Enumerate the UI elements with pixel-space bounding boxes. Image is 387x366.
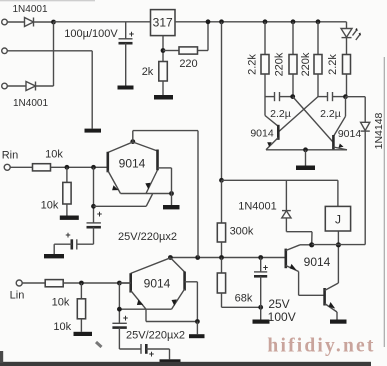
svg-text:Lin: Lin [10,290,25,302]
svg-text:1N4001: 1N4001 [12,4,47,15]
svg-text:2.2k: 2.2k [327,54,339,75]
svg-text:100V: 100V [268,310,296,324]
svg-text:220k: 220k [300,52,312,76]
svg-text:68k: 68k [235,293,253,305]
svg-text:9014: 9014 [119,156,146,170]
svg-text:10k: 10k [41,200,59,212]
svg-text:10k: 10k [52,297,70,309]
svg-text:+: + [123,313,128,323]
svg-text:300k: 300k [230,226,254,238]
svg-text:100µ/100V: 100µ/100V [64,28,118,40]
svg-text:Rin: Rin [2,150,19,162]
svg-text:9014: 9014 [338,128,362,140]
svg-text:+: + [149,349,154,359]
svg-text:+: + [263,263,268,273]
svg-text:220k: 220k [274,52,286,76]
svg-text:9014: 9014 [250,128,274,140]
svg-text:220: 220 [179,58,197,70]
svg-text:+: + [97,209,102,219]
svg-text:25V: 25V [268,297,289,311]
svg-text:25V/220µx2: 25V/220µx2 [118,231,177,243]
svg-text:+: + [129,29,134,39]
svg-text:10k: 10k [45,149,63,161]
svg-text:1N4148: 1N4148 [373,112,385,149]
svg-text:1N4001: 1N4001 [13,98,48,109]
svg-text:2.2µ: 2.2µ [270,108,291,120]
svg-text:9014: 9014 [144,276,171,290]
svg-text:2.2k: 2.2k [247,54,259,75]
svg-text:2.2µ: 2.2µ [320,108,341,120]
svg-text:J: J [335,213,341,227]
svg-text:hifidiy.net: hifidiy.net [267,336,375,357]
svg-text:317: 317 [153,16,173,30]
svg-text:2k: 2k [142,66,154,78]
svg-text:10k: 10k [53,321,71,333]
svg-text:25V/220µx2: 25V/220µx2 [126,329,185,341]
svg-text:1N4001: 1N4001 [238,201,277,213]
svg-text:+: + [65,230,70,240]
svg-text:9014: 9014 [304,255,331,269]
